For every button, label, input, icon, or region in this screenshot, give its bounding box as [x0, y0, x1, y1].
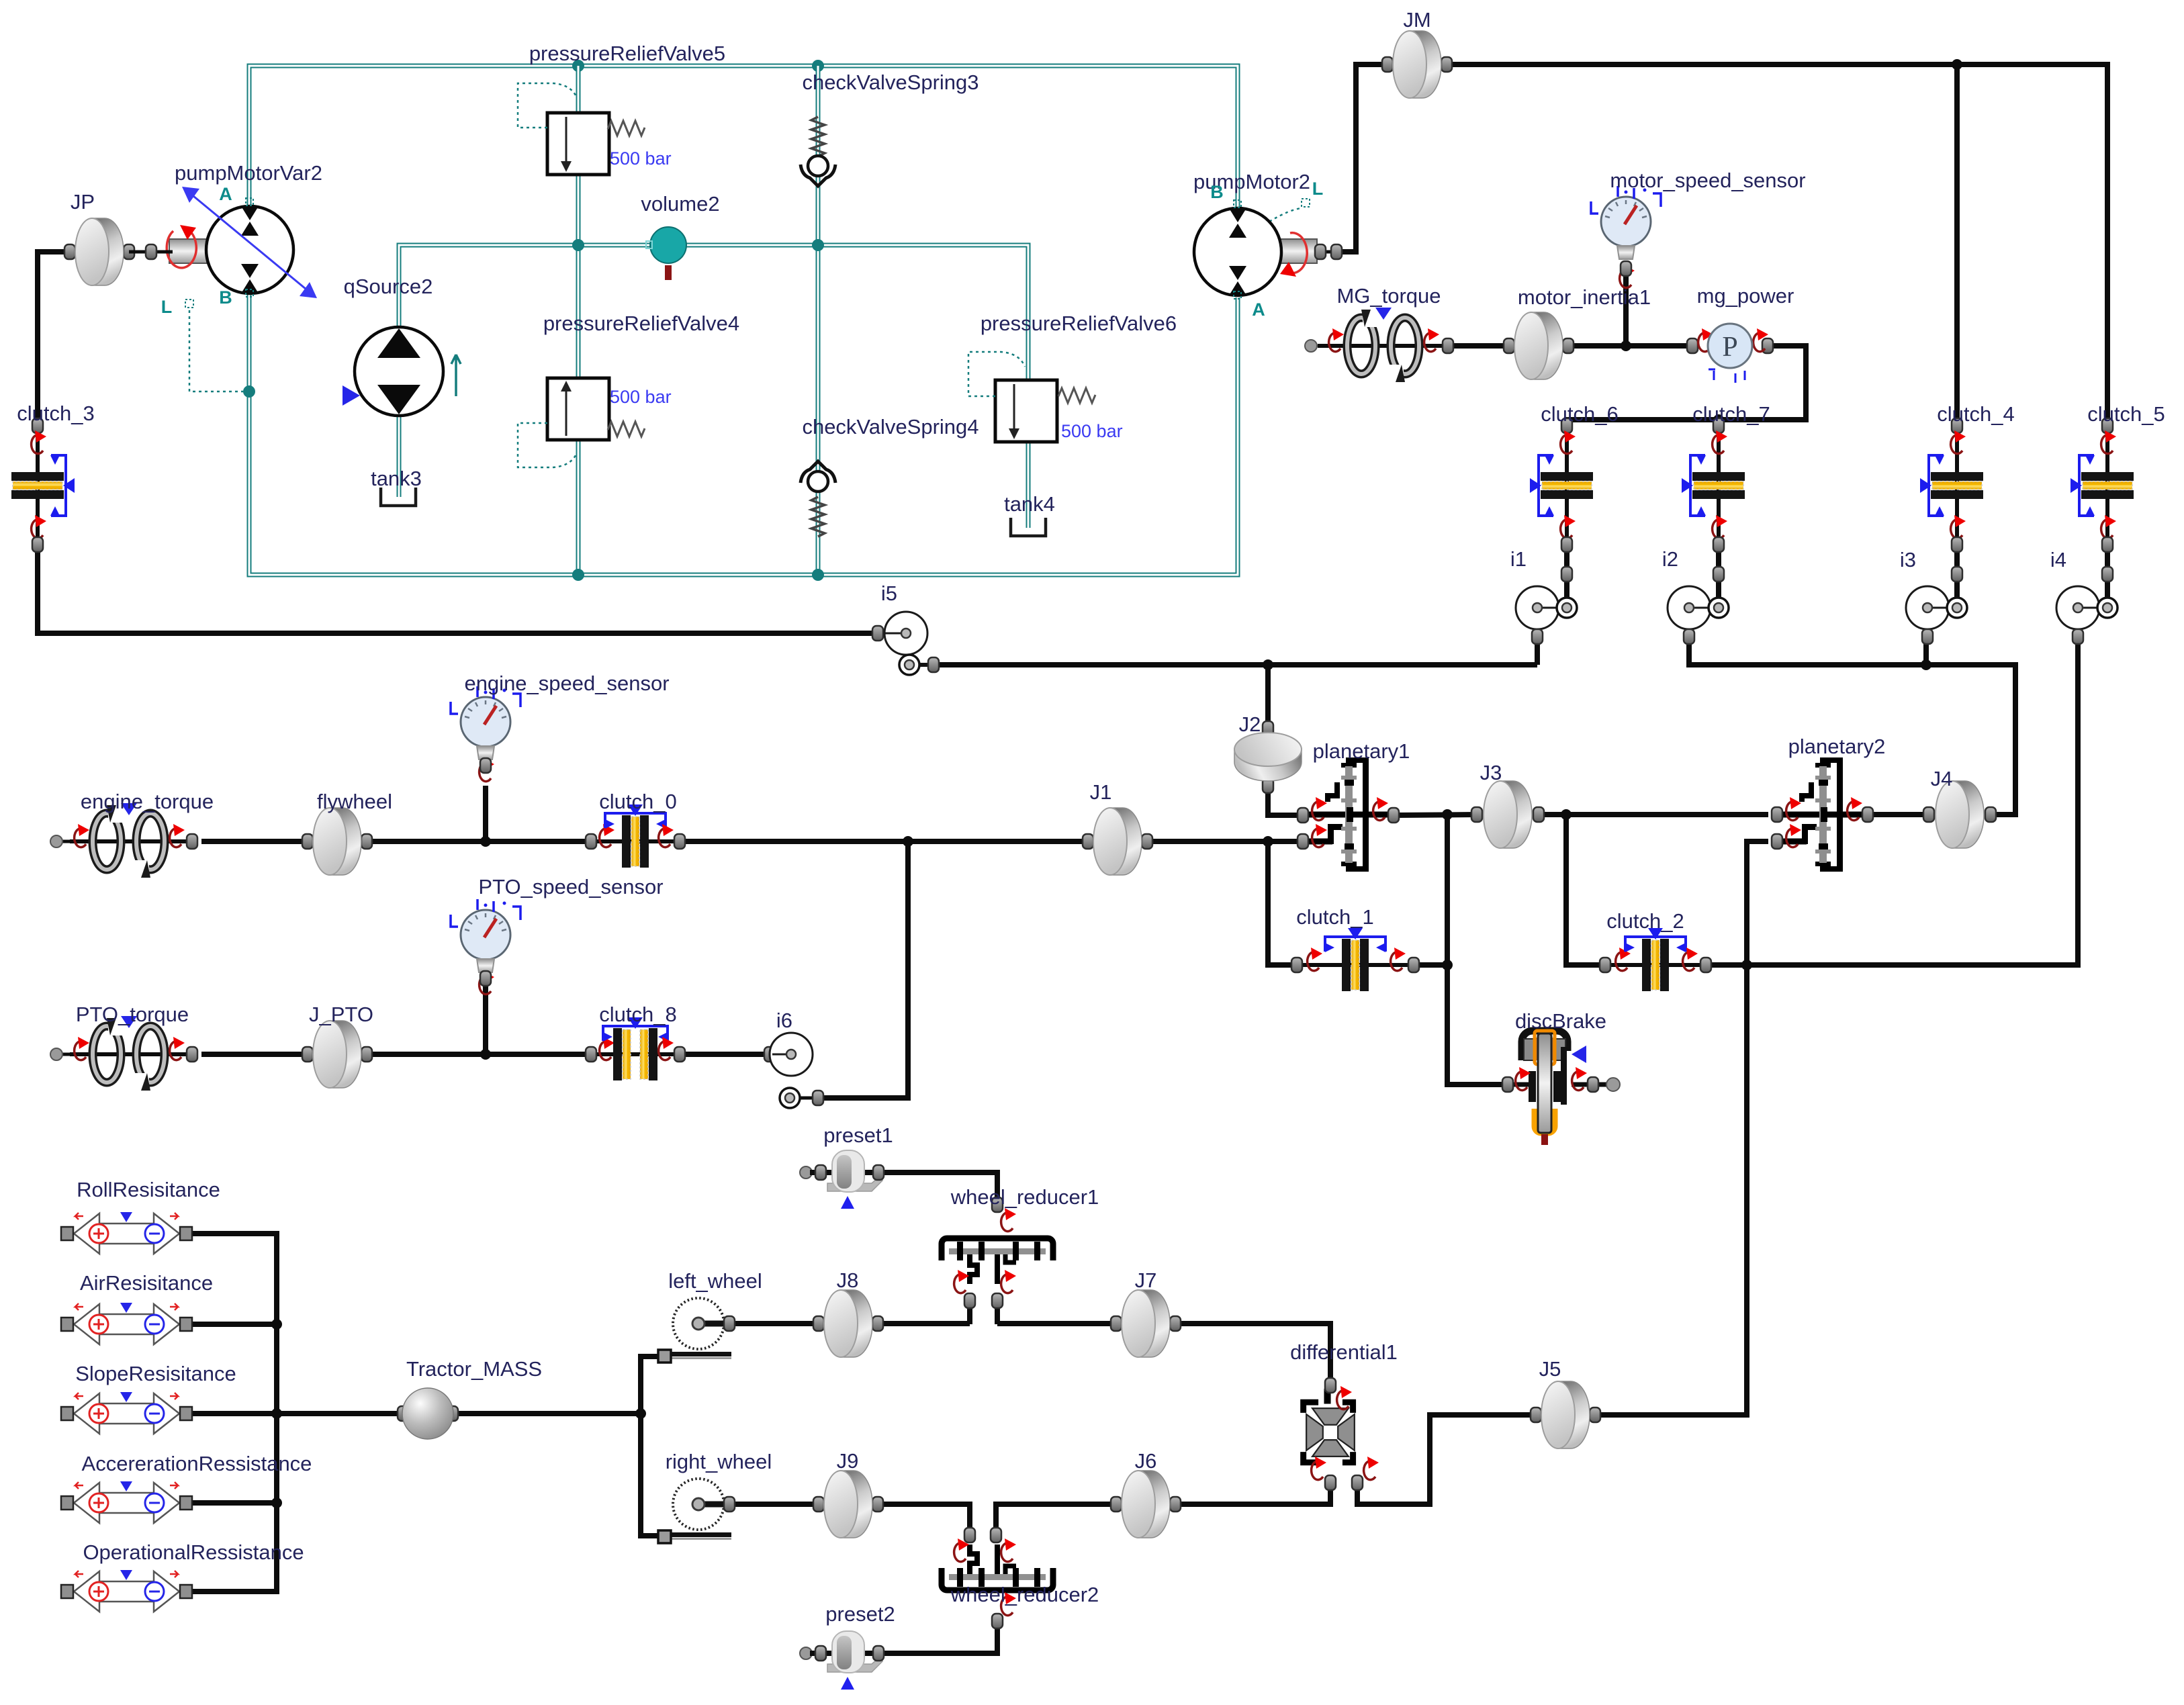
node bottom-bus/checkValveSpring4 junction — [812, 569, 824, 581]
wire planetary2 to J4 — [1868, 812, 1929, 817]
svg-text:B: B — [1210, 182, 1224, 202]
svg-text:planetary2: planetary2 — [1788, 735, 1886, 758]
wire reducer2 bottom port to preset2 — [878, 1621, 997, 1653]
svg-text:wheel_reducer1: wheel_reducer1 — [950, 1185, 1099, 1209]
wire clutch_2 right stub — [1706, 962, 1747, 968]
node bus J2 junction — [1263, 659, 1273, 670]
svg-text:500 bar: 500 bar — [610, 148, 672, 169]
JP-pump shaft flange — [146, 244, 156, 259]
wire i4 long drop — [1747, 637, 2078, 965]
wire differential1 bottom-right to J5 — [1357, 1415, 1536, 1504]
svg-text:i3: i3 — [1900, 548, 1916, 571]
sensor PTO_speed_sensor — [451, 899, 520, 972]
wire J6 to differential1 bottom-left — [1175, 1485, 1330, 1504]
wire valve6 to tank4 — [1026, 442, 1031, 528]
wire J9 to reducer2 — [878, 1504, 970, 1534]
svg-text:flywheel: flywheel — [317, 790, 392, 813]
tank tank3 — [381, 488, 416, 506]
svg-text:engine_torque: engine_torque — [81, 790, 214, 813]
gear ratio i6 — [764, 1047, 775, 1062]
end dot discBrake tail — [1606, 1078, 1620, 1091]
wire JP to clutch_3 top — [38, 252, 70, 426]
force source OperationalRessistance — [61, 1570, 192, 1612]
wire planetary1 to J3 — [1394, 815, 1477, 815]
wire hydraulic mid bus — [399, 245, 1028, 380]
qSource2 input triangle — [343, 385, 360, 406]
wire clutch_0 to J1 — [680, 839, 1088, 844]
svg-text:qSource2: qSource2 — [344, 275, 433, 298]
wire J_PTO to clutch_8 — [367, 1052, 591, 1057]
svg-text:clutch_4: clutch_4 — [1937, 402, 2014, 426]
pump pumpMotorVar2 rotation arrow — [167, 230, 196, 268]
svg-text:planetary1: planetary1 — [1313, 739, 1410, 763]
wire wheel_reducer1 right port drop — [995, 1303, 1000, 1324]
check valve checkValveSpring4 — [801, 461, 835, 483]
svg-text:J3: J3 — [1480, 761, 1502, 784]
wire clutch_8 to i6 — [680, 1052, 770, 1057]
inertia J9 — [813, 1497, 824, 1512]
node mid-bus/checkValveSpring3 junction — [812, 239, 824, 251]
sensor engine_speed_sensor — [451, 686, 520, 759]
inertia JM — [1382, 57, 1393, 72]
pump pumpMotorVar2 leak line L — [189, 310, 243, 391]
svg-text:J7: J7 — [1135, 1269, 1157, 1292]
wire resistance bus — [193, 1234, 277, 1592]
pumpMotor2 shaft flanges — [1315, 244, 1326, 259]
wire i6 riser — [818, 841, 908, 1098]
gear ratio i2 — [1668, 586, 1711, 629]
clutch clutch_0 — [591, 839, 680, 843]
wire planetary2 lower port to J5 riser — [1595, 841, 1768, 1415]
node i6 riser tee — [903, 836, 913, 847]
torque source MG_torque — [1305, 340, 1317, 352]
wire JM row — [1336, 64, 2107, 426]
wire AccererationRessistance stub — [193, 1500, 277, 1506]
svg-text:pumpMotorVar2: pumpMotorVar2 — [175, 161, 322, 185]
clutch clutch_8 — [591, 1052, 680, 1056]
svg-text:i6: i6 — [776, 1009, 792, 1032]
gear ratio i4 — [2056, 586, 2099, 629]
pump qSource2 body — [355, 327, 443, 416]
svg-text:discBrake: discBrake — [1515, 1009, 1606, 1033]
svg-text:clutch_6: clutch_6 — [1541, 402, 1618, 426]
wire left_wheel to J8 — [729, 1321, 819, 1326]
wire engine row — [56, 840, 70, 843]
valve pressureReliefValve6 — [995, 380, 1057, 442]
wire preset1 to wheel_reducer1 — [878, 1172, 997, 1205]
node acceleration junction — [271, 1497, 282, 1508]
pump pumpMotorVar2 variable arrow — [193, 196, 306, 289]
wire clutch_1 right stub — [1414, 962, 1447, 968]
node clutch_7 tap — [1713, 414, 1724, 425]
clutch clutch_1 — [1297, 963, 1414, 967]
svg-text:preset1: preset1 — [823, 1123, 893, 1147]
svg-text:tank3: tank3 — [371, 467, 422, 490]
svg-text:i2: i2 — [1662, 547, 1678, 571]
brake discBrake — [1508, 1082, 1531, 1087]
svg-text:B: B — [219, 287, 232, 308]
wire J2 to planetary1 upper port — [1268, 786, 1303, 815]
svg-text:i5: i5 — [881, 582, 897, 605]
force source AirResisitance — [61, 1303, 192, 1344]
node top-bus/checkValveSpring3 tap — [812, 60, 824, 72]
svg-text:right_wheel: right_wheel — [666, 1450, 772, 1473]
wire PTO row — [56, 1053, 70, 1056]
pump pumpMotorVar2 shaft — [169, 239, 207, 263]
node slope junction — [271, 1408, 282, 1419]
wire clutch_4 to i3 ring — [1954, 545, 1960, 599]
svg-text:J_PTO: J_PTO — [309, 1003, 373, 1026]
wire clutch_3 to i5 — [38, 545, 878, 633]
wire SlopeResisitance to Tractor_MASS — [193, 1411, 400, 1416]
wire i1 drop — [1535, 637, 1540, 665]
clutch clutch_7 — [1717, 426, 1721, 599]
wire AirResisitance stub — [193, 1322, 277, 1327]
inertia J5 — [1531, 1408, 1541, 1422]
node air junction — [271, 1319, 282, 1330]
node engine sensor tee — [480, 836, 491, 847]
wire clutch_7 to i2 ring — [1716, 545, 1721, 599]
wire motor_speed_sensor drop — [1623, 269, 1629, 346]
wire i5 output bus to i1 — [934, 662, 1537, 667]
svg-text:L: L — [1312, 179, 1324, 199]
qSource2 direction arrow — [451, 355, 461, 396]
svg-text:checkValveSpring4: checkValveSpring4 — [802, 415, 979, 439]
JP-pump shaft wire — [129, 250, 173, 254]
pump pumpMotorVar2 body — [206, 206, 293, 293]
wire i3 drop — [1923, 637, 1929, 665]
svg-text:OperationalRessistance: OperationalRessistance — [83, 1540, 304, 1564]
svg-text:J2: J2 — [1239, 712, 1261, 736]
wire split to left wheel port — [641, 1356, 660, 1414]
svg-text:RollResisitance: RollResisitance — [77, 1178, 220, 1201]
svg-text:Tractor_MASS: Tractor_MASS — [406, 1357, 542, 1381]
svg-text:pressureReliefValve6: pressureReliefValve6 — [981, 312, 1177, 335]
node i3 bus junction — [1921, 659, 1931, 670]
svg-text:i4: i4 — [2050, 548, 2066, 571]
svg-text:clutch_2: clutch_2 — [1606, 909, 1684, 933]
svg-text:500 bar: 500 bar — [1061, 421, 1123, 441]
svg-text:checkValveSpring3: checkValveSpring3 — [802, 71, 979, 94]
wheel left_wheel — [658, 1298, 731, 1363]
inertia J7 — [1111, 1316, 1122, 1331]
svg-text:JM: JM — [1403, 8, 1430, 32]
wire J3 to planetary2 — [1539, 812, 1768, 817]
inertia J_PTO — [302, 1047, 313, 1062]
wire J2 drop — [1265, 665, 1271, 729]
wire J1 to planetary1 lower port — [1147, 839, 1303, 844]
svg-text:wheel_reducer2: wheel_reducer2 — [950, 1583, 1099, 1606]
wire clutch_1 right riser and discBrake feed — [1447, 815, 1508, 1085]
svg-text:A: A — [219, 184, 232, 204]
pump pumpMotor2 rotation arrow — [1287, 233, 1307, 273]
inertia J2 — [1263, 721, 1273, 736]
svg-text:J6: J6 — [1135, 1449, 1157, 1473]
svg-text:clutch_8: clutch_8 — [599, 1003, 676, 1026]
wire flywheel to clutch_0 — [367, 839, 591, 844]
pump pumpMotor2 shaft — [1279, 239, 1317, 263]
svg-text:J4: J4 — [1931, 767, 1953, 790]
svg-text:clutch_3: clutch_3 — [17, 402, 94, 425]
wire mass to wheels split — [455, 1411, 641, 1416]
svg-text:AccererationRessistance: AccererationRessistance — [82, 1452, 312, 1475]
svg-text:clutch_1: clutch_1 — [1296, 905, 1373, 929]
svg-text:pressureReliefValve5: pressureReliefValve5 — [529, 42, 725, 65]
svg-text:mg_power: mg_power — [1697, 284, 1794, 308]
torque source PTO_torque — [50, 1048, 62, 1060]
force source RollResisitance — [61, 1212, 192, 1254]
svg-text:J1: J1 — [1090, 780, 1112, 804]
wire clutch_4 drop — [1954, 64, 1960, 426]
inertia J6 — [1111, 1497, 1122, 1512]
svg-text:i1: i1 — [1510, 547, 1527, 571]
valve pressureReliefValve5 — [547, 113, 609, 175]
svg-text:engine_speed_sensor: engine_speed_sensor — [464, 672, 669, 695]
tank tank4 — [1011, 518, 1046, 536]
svg-text:motor_speed_sensor: motor_speed_sensor — [1610, 169, 1805, 192]
inertia J4 — [1923, 807, 1934, 822]
wire checkValveSpring4 drop — [816, 245, 821, 575]
svg-text:clutch_0: clutch_0 — [599, 790, 676, 813]
node clutch_2 drop tee — [1561, 809, 1572, 820]
clutch clutch_5 — [2105, 426, 2109, 599]
node clutch_2 right tee — [1741, 960, 1752, 970]
torque source engine_torque — [50, 835, 62, 847]
gear ratio i1 — [1516, 586, 1559, 629]
preset preset2 — [800, 1647, 812, 1659]
inertia J3 — [1471, 807, 1482, 822]
wire checkValveSpring3 drop — [816, 66, 821, 245]
pumpMotor2 shaft wire — [1314, 250, 1340, 254]
svg-text:PTO_torque: PTO_torque — [76, 1003, 189, 1026]
svg-text:clutch_5: clutch_5 — [2087, 402, 2165, 426]
svg-text:motor_inertia1: motor_inertia1 — [1518, 285, 1651, 309]
wire qSource2 to tank3 — [397, 417, 402, 497]
node clutch_1 right riser tee — [1442, 809, 1453, 820]
wire J8 to reducer1 — [878, 1321, 970, 1326]
valve pressureReliefValve4 — [547, 378, 609, 440]
wire reducer1 to J7 — [997, 1321, 1116, 1326]
wire right_wheel to J9 — [729, 1502, 819, 1507]
wire clutch_6 to i1 ring — [1564, 545, 1569, 599]
svg-text:volume2: volume2 — [641, 192, 719, 216]
pump pumpMotor2 body — [1194, 208, 1281, 295]
wire hydraulic top bus A-to-B — [249, 66, 1238, 207]
svg-text:tank4: tank4 — [1004, 492, 1055, 516]
force source SlopeResisitance — [61, 1392, 192, 1434]
gear wheel_reducer2 — [942, 1545, 1053, 1590]
wheel right_wheel — [658, 1479, 731, 1543]
wire PTO_speed_sensor drop — [483, 978, 488, 1054]
svg-text:SlopeResisitance: SlopeResisitance — [75, 1362, 236, 1385]
node PTO sensor tee — [480, 1049, 491, 1060]
node motor junction — [1621, 340, 1631, 351]
clutch clutch_2 — [1605, 963, 1706, 967]
node wheel split — [635, 1408, 646, 1419]
svg-text:MG_torque: MG_torque — [1336, 284, 1441, 308]
wire discBrake tail — [1572, 1082, 1610, 1087]
wire clutch_5 to i4 ring — [2105, 545, 2110, 599]
wire J7 to differential1 top — [1175, 1324, 1330, 1385]
svg-text:500 bar: 500 bar — [610, 387, 672, 407]
inertia motor_inertia1 — [1504, 338, 1514, 353]
node clutch_1 drop tee — [1263, 836, 1273, 847]
wire i6 ring stub — [799, 1097, 818, 1100]
inertia JP — [64, 244, 75, 259]
gear ratio i5 — [872, 626, 883, 641]
planetary gear planetary2 — [1780, 757, 1868, 872]
node top-bus/valve5 tap — [572, 60, 584, 72]
inertia J8 — [813, 1316, 824, 1331]
sensor motor_speed_sensor — [1591, 186, 1661, 259]
svg-text:JP: JP — [71, 190, 95, 214]
wire MG shaft — [1451, 343, 1509, 349]
svg-text:differential1: differential1 — [1290, 1340, 1398, 1364]
wire hydraulic bottom bus — [249, 293, 1238, 575]
node mid-bus/valve5 junction — [572, 239, 584, 251]
wire PTO_torque to J_PTO — [201, 1052, 308, 1057]
wire clutch_2 left drop — [1566, 815, 1605, 965]
wire split to right wheel port — [641, 1414, 660, 1536]
mass Tractor_MASS — [398, 1406, 408, 1421]
gear wheel_reducer1 — [942, 1238, 1053, 1284]
wire valve5 drop — [576, 66, 581, 245]
differential differential1 — [1304, 1389, 1355, 1463]
planetary gear planetary1 — [1306, 757, 1394, 872]
svg-text:J5: J5 — [1539, 1357, 1561, 1381]
wire clutch_1 left drop — [1268, 841, 1297, 965]
node JM-row clutch_4 tee — [1952, 59, 1962, 70]
clutch clutch_3 — [36, 426, 40, 545]
wire mg_power loop to clutch bus — [1567, 346, 1806, 426]
pump pumpMotor2 leak line L — [1269, 208, 1302, 222]
preset preset1 — [800, 1166, 812, 1179]
svg-text:preset2: preset2 — [825, 1602, 895, 1626]
wire wheel_reducer1 left port drop — [967, 1303, 972, 1324]
wire clutch_7 drop — [1716, 420, 1721, 426]
svg-text:clutch_7: clutch_7 — [1692, 402, 1770, 426]
svg-text:L: L — [161, 297, 173, 317]
clutch clutch_6 — [1565, 426, 1569, 599]
gear ratio i3 — [1906, 586, 1949, 629]
sensor mg_power — [1687, 338, 1698, 353]
inertia flywheel — [302, 834, 313, 849]
svg-text:P: P — [1722, 332, 1737, 363]
svg-text:A: A — [1252, 299, 1265, 320]
wire motor_inertia1 to mg_power — [1568, 343, 1692, 349]
svg-text:J9: J9 — [837, 1449, 859, 1473]
wire engine_torque to flywheel — [201, 839, 308, 844]
wire engine_speed_sensor drop — [483, 786, 488, 841]
wire reducer2 to J6 — [996, 1504, 1116, 1534]
clutch clutch_4 — [1955, 426, 1959, 599]
check valve checkValveSpring3 — [811, 117, 825, 156]
node bottom-bus/valve4 junction — [572, 569, 584, 581]
svg-text:J8: J8 — [837, 1269, 859, 1292]
svg-text:PTO_speed_sensor: PTO_speed_sensor — [478, 875, 663, 898]
inertia J1 — [1083, 834, 1093, 849]
volume volume2 — [650, 227, 686, 263]
svg-text:AirResisitance: AirResisitance — [80, 1271, 213, 1295]
svg-text:pressureReliefValve4: pressureReliefValve4 — [543, 312, 739, 335]
node clutch_1 right tee — [1442, 960, 1453, 970]
force source AccererationRessistance — [61, 1481, 192, 1523]
wire valve4 drop — [576, 245, 581, 575]
wire i2 output bus to J4 riser — [1689, 637, 2015, 815]
svg-text:left_wheel: left_wheel — [668, 1269, 762, 1293]
